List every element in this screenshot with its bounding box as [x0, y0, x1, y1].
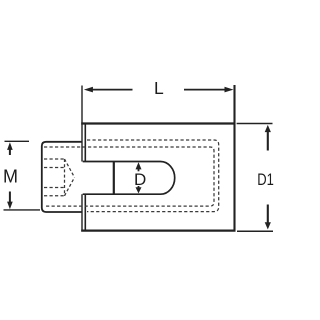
cylinder inner dashed line 3 — [44, 167, 65, 169]
countersink cone dashed vertical — [64, 159, 66, 196]
cylinder thread dashed line pair + body inner dashed bore — [44, 147, 214, 206]
cylinder inner dashed line 2 — [44, 158, 65, 160]
dimension M down arrow — [9, 192, 11, 203]
cylinder inner dashed line 4 — [44, 187, 65, 189]
body left edge inner line (slot gap) — [84, 124, 86, 231]
slot inner vertical line — [113, 162, 115, 195]
dimension L right arrowhead — [225, 87, 234, 93]
cylinder inner dashed line 5 — [44, 195, 65, 197]
svg-text:D: D — [134, 170, 146, 189]
body bottom edge — [81, 230, 235, 232]
cylinder boss outline — [42, 142, 82, 212]
dimension M up arrow — [9, 149, 11, 156]
countersink cone dashed lower slant — [65, 177, 75, 195]
body right edge (with L extension above) — [233, 85, 235, 232]
dimension L line left segment — [91, 89, 133, 91]
slot bottom line — [83, 193, 161, 195]
dimension L line right segment — [184, 89, 226, 91]
dimension M bottom extension line — [4, 209, 41, 211]
body outer dashed bore — [87, 140, 219, 212]
body top edge — [81, 122, 235, 124]
slot rounded end arc — [161, 162, 175, 195]
dimension D1 down arrow — [267, 205, 269, 223]
dimension M top extension line — [5, 140, 30, 142]
dimension D down arrow — [138, 186, 140, 188]
body left edge outer line (with L extension above, slot gap) — [81, 86, 83, 232]
dimension D1 top extension line — [237, 123, 273, 125]
countersink cone dashed upper slant — [65, 159, 75, 177]
svg-text:D1: D1 — [257, 171, 274, 189]
dimension L left arrowhead — [84, 87, 93, 93]
dimension D up arrow — [138, 167, 140, 171]
svg-text:M: M — [3, 167, 18, 187]
dimension D1 up arrow — [267, 132, 269, 151]
svg-text:L: L — [154, 78, 164, 98]
slot top line — [83, 161, 161, 163]
dimension D1 bottom extension line — [237, 230, 273, 232]
